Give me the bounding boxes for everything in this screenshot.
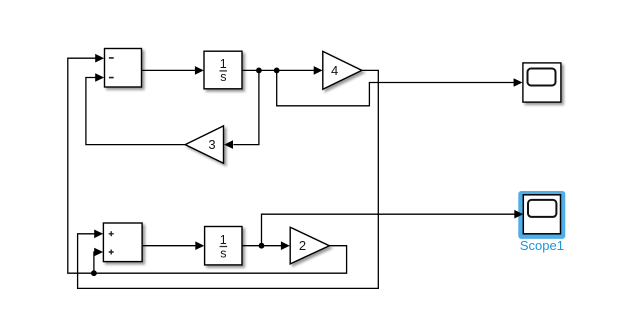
svg-text:1: 1 <box>220 233 227 247</box>
svg-text:2: 2 <box>299 238 306 253</box>
node junction dot D (gain2 loop, feeds sum2 input 2) <box>91 270 97 276</box>
svg-text:s: s <box>220 70 226 84</box>
svg-text:3: 3 <box>208 137 215 152</box>
scope block Scope (top right) <box>523 63 561 102</box>
wire junction C up to Scope1 input <box>262 210 524 246</box>
gain block 2 <box>290 227 329 264</box>
wire junction B to Scope input <box>277 70 523 105</box>
sum block Sum1 source (bottom, inputs + +) <box>103 223 142 262</box>
integrator block 1/s (top) <box>204 51 242 89</box>
wire junction D up to sum2 input 2 <box>94 248 103 274</box>
wire sum2 output to integrator2 <box>142 241 204 250</box>
wire gain4 output to sum2 input 1 <box>78 70 379 288</box>
wire integrator1 output to gain4 <box>242 66 323 75</box>
node junction dot C (integrator2 out, feeds Scope1) <box>259 243 265 249</box>
scope block Scope1 (selected, blue highlight) <box>518 191 565 239</box>
node junction dot B (integrator1 out, feeds Scope) <box>274 68 280 74</box>
sum block Sum (top, inputs - -) <box>105 49 142 88</box>
svg-text:Scope1: Scope1 <box>520 238 564 253</box>
wire gain2 output loop to sum1 input 1 <box>68 54 347 273</box>
wire integrator2 output to gain2 <box>242 241 290 250</box>
svg-text:4: 4 <box>331 63 338 78</box>
gain block 4 <box>323 51 362 89</box>
wire junction A down to gain3 input <box>224 70 259 148</box>
node junction dot A (integrator1 out, feeds gain3) <box>256 68 262 74</box>
gain block 3 (points left) <box>185 126 223 163</box>
wire sum1 output to integrator1 <box>142 66 204 75</box>
integrator block 1/s (bottom) <box>205 227 242 265</box>
wire gain3 output to sum1 input 2 <box>86 73 185 144</box>
svg-text:s: s <box>220 247 226 261</box>
